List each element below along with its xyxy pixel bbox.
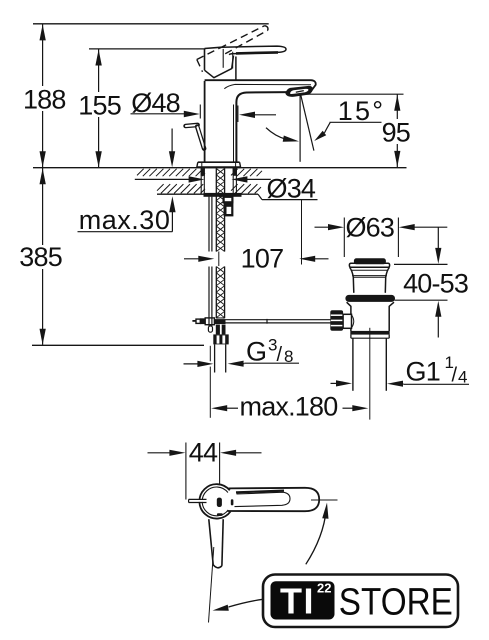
svg-text:max.30: max.30 bbox=[79, 205, 171, 235]
elbow fitting bbox=[224, 202, 234, 216]
svg-text:155: 155 bbox=[78, 90, 121, 120]
dimension max.180 bbox=[211, 405, 227, 411]
dimension 107 bbox=[184, 258, 202, 260]
dimension 15 degrees bbox=[330, 121, 382, 123]
rod joint assembly bbox=[192, 320, 196, 322]
drain plug plate bbox=[349, 263, 389, 267]
dimension 385 line bbox=[42, 168, 44, 245]
svg-text:G: G bbox=[246, 337, 266, 367]
spout swivel arc bbox=[266, 128, 286, 140]
svg-text:15°: 15° bbox=[338, 96, 385, 126]
hose crimp bbox=[216, 325, 220, 335]
wire top datum line (handle max height) bbox=[33, 23, 269, 25]
drain centerline bbox=[369, 328, 371, 420]
logo TI STORE box bbox=[263, 575, 458, 628]
drain D63 extension lines bbox=[343, 218, 345, 258]
top view datum line right bbox=[311, 499, 338, 501]
top view arm inner contour bbox=[235, 492, 291, 506]
svg-text:STORE: STORE bbox=[339, 582, 453, 624]
pop-up pull rod below counter bbox=[208, 197, 210, 252]
drain rod knob bbox=[330, 310, 343, 330]
top view spout arm bbox=[228, 488, 320, 511]
svg-text:40-53: 40-53 bbox=[403, 268, 468, 298]
wire countertop datum line bbox=[33, 167, 407, 169]
top view swivel arc bottom bbox=[229, 599, 263, 607]
svg-text:TI: TI bbox=[280, 581, 315, 622]
faucet body right edge bbox=[236, 92, 289, 162]
logo TI black tile bbox=[271, 581, 335, 619]
dimension 44 extension lines bbox=[185, 443, 187, 500]
wire max.180 left extension bbox=[209, 346, 211, 362]
svg-text:107: 107 bbox=[241, 243, 284, 273]
dimension 188 line bbox=[42, 24, 44, 86]
dimension 155 line bbox=[98, 49, 100, 92]
svg-text:385: 385 bbox=[19, 242, 62, 272]
water stream vertical bbox=[299, 95, 301, 162]
drain thread band bbox=[350, 331, 389, 335]
pop-up pull rod lever (above counter) bbox=[186, 125, 198, 126]
drain body bbox=[347, 302, 351, 331]
svg-text:max.180: max.180 bbox=[240, 392, 338, 422]
hose nipple fitting bbox=[224, 197, 233, 203]
top view temp lever bar bbox=[189, 500, 207, 502]
faucet handle raised (dashed) bbox=[219, 26, 264, 49]
horizontal pop-up rod bbox=[226, 319, 331, 321]
svg-text:Ø63: Ø63 bbox=[345, 212, 394, 242]
wire 155 datum line (body height) bbox=[89, 48, 206, 50]
drain plug cap bbox=[354, 258, 386, 264]
countertop hatching bbox=[137, 169, 144, 176]
top view handle marks bbox=[217, 498, 222, 507]
supply hose tube bbox=[214, 344, 216, 372]
top view swivel arc right bbox=[306, 510, 327, 565]
dimension D34 bbox=[135, 178, 193, 180]
dimension G3/8 bbox=[184, 363, 202, 365]
svg-text:44: 44 bbox=[189, 438, 218, 468]
wire D34 to 107 extension bbox=[301, 200, 303, 265]
faucet lever bbox=[222, 46, 286, 55]
top view body circle bbox=[199, 484, 230, 518]
wire hose-end datum line bbox=[32, 344, 204, 346]
dimension 40-53 bbox=[394, 263, 448, 265]
svg-text:Ø34: Ø34 bbox=[267, 174, 316, 204]
dimension D63 bbox=[315, 226, 332, 228]
shank locknut bbox=[204, 193, 242, 197]
faucet base plinth bbox=[198, 161, 240, 163]
faucet lever neck bbox=[235, 57, 237, 81]
pull rod end cap bbox=[208, 326, 212, 332]
svg-text:22: 22 bbox=[317, 581, 331, 596]
svg-text:G1: G1 bbox=[406, 357, 440, 387]
countertop bottom line bbox=[157, 193, 204, 195]
dimension G1 1/4 bbox=[331, 382, 340, 384]
G3/8 nut bbox=[213, 334, 228, 344]
threaded shank (crosshatch) bbox=[215, 169, 217, 252]
drain neck bbox=[350, 267, 354, 293]
drain o-ring seal bbox=[345, 295, 395, 302]
svg-text:Ø48: Ø48 bbox=[131, 88, 180, 118]
dimension max.30 bbox=[78, 231, 173, 233]
dimension D48 bbox=[131, 113, 188, 115]
svg-text:8: 8 bbox=[284, 347, 293, 366]
top view lever (down) bbox=[209, 519, 213, 565]
drain tailpipe bbox=[352, 338, 354, 391]
dimension 44 bbox=[148, 452, 174, 454]
svg-text:188: 188 bbox=[23, 84, 66, 114]
mounting bolt lines in counter bbox=[200, 168, 202, 194]
water stream 15 deg slant bbox=[301, 95, 314, 150]
dimension 95 bbox=[304, 93, 404, 95]
aerator bbox=[286, 86, 312, 96]
top view lever axis line bbox=[209, 547, 214, 623]
faucet handle cap bbox=[205, 47, 222, 48]
faucet body outline bbox=[204, 81, 206, 162]
svg-text:4: 4 bbox=[458, 367, 467, 386]
svg-text:95: 95 bbox=[382, 117, 410, 147]
